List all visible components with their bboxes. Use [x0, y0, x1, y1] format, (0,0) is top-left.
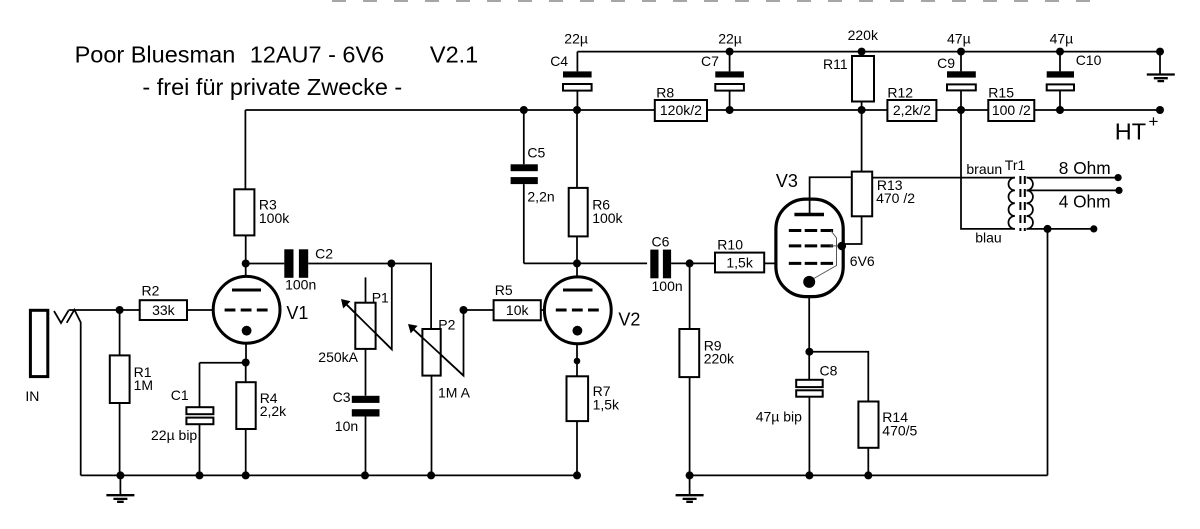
svg-text:220k: 220k	[848, 27, 879, 43]
svg-text:R15: R15	[988, 85, 1014, 101]
svg-text:1,5k: 1,5k	[593, 396, 620, 412]
svg-text:100n: 100n	[652, 278, 683, 294]
svg-text:C10: C10	[1076, 52, 1102, 68]
svg-text:V2.1: V2.1	[430, 42, 478, 68]
svg-text:C3: C3	[333, 389, 351, 405]
svg-text:braun: braun	[966, 161, 1002, 177]
svg-text:V1: V1	[286, 303, 308, 323]
svg-text:22µ: 22µ	[718, 31, 742, 47]
svg-text:22µ bip: 22µ bip	[151, 427, 197, 443]
svg-text:- frei für private Zwecke -: - frei für private Zwecke -	[142, 74, 402, 100]
svg-text:+: +	[1149, 112, 1159, 131]
svg-text:R5: R5	[495, 282, 513, 298]
svg-text:47µ: 47µ	[1050, 31, 1074, 47]
svg-text:8 Ohm: 8 Ohm	[1059, 158, 1111, 178]
svg-text:250kA: 250kA	[318, 349, 358, 365]
svg-text:2,2k: 2,2k	[260, 403, 287, 419]
svg-text:100k: 100k	[592, 210, 623, 226]
svg-text:V3: V3	[776, 171, 798, 191]
svg-text:470 /2: 470 /2	[876, 190, 915, 206]
svg-text:2,2n: 2,2n	[527, 189, 554, 205]
svg-text:HT: HT	[1115, 119, 1146, 145]
svg-text:47µ: 47µ	[947, 31, 971, 47]
svg-text:C1: C1	[171, 387, 189, 403]
svg-text:C7: C7	[701, 53, 719, 69]
svg-text:R10: R10	[717, 237, 743, 253]
svg-text:R12: R12	[887, 85, 913, 101]
svg-text:10n: 10n	[335, 418, 358, 434]
svg-text:2,2k/2: 2,2k/2	[893, 102, 931, 118]
svg-text:C9: C9	[937, 55, 955, 71]
svg-text:6V6: 6V6	[850, 253, 875, 269]
svg-text:V2: V2	[618, 310, 640, 330]
svg-text:R2: R2	[142, 283, 160, 299]
svg-text:100n: 100n	[285, 277, 316, 293]
svg-text:12AU7 - 6V6: 12AU7 - 6V6	[250, 42, 385, 68]
svg-text:C8: C8	[820, 363, 838, 379]
svg-text:IN: IN	[25, 388, 39, 404]
svg-text:Tr1: Tr1	[1005, 157, 1026, 173]
svg-text:100 /2: 100 /2	[992, 102, 1031, 118]
svg-text:R11: R11	[823, 56, 848, 72]
svg-text:R8: R8	[656, 85, 674, 101]
svg-text:4 Ohm: 4 Ohm	[1059, 192, 1111, 212]
svg-text:C2: C2	[315, 246, 333, 262]
svg-text:C6: C6	[652, 234, 670, 250]
svg-text:C4: C4	[550, 53, 568, 69]
svg-text:10k: 10k	[506, 302, 530, 318]
svg-text:33k: 33k	[152, 302, 176, 318]
svg-text:120k/2: 120k/2	[660, 102, 702, 118]
svg-text:P1: P1	[372, 290, 389, 306]
svg-text:1M A: 1M A	[438, 385, 471, 401]
svg-text:220k: 220k	[704, 351, 735, 367]
svg-text:470/5: 470/5	[882, 422, 917, 438]
svg-text:P2: P2	[438, 317, 455, 333]
svg-text:100k: 100k	[259, 210, 290, 226]
svg-text:1M: 1M	[134, 377, 153, 393]
svg-text:47µ bip: 47µ bip	[756, 409, 802, 425]
svg-text:C5: C5	[527, 145, 545, 161]
svg-text:22µ: 22µ	[564, 31, 588, 47]
svg-text:Poor Bluesman: Poor Bluesman	[75, 42, 236, 68]
svg-text:blau: blau	[975, 230, 1001, 246]
svg-text:1,5k: 1,5k	[726, 254, 753, 270]
